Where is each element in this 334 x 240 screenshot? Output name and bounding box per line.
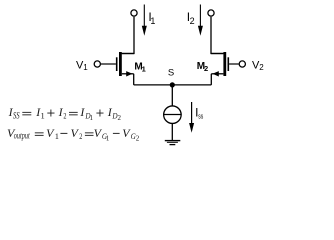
svg-text:1: 1: [41, 110, 45, 120]
svg-text:ss: ss: [198, 114, 203, 121]
svg-text:V: V: [71, 126, 80, 140]
svg-text:1: 1: [90, 114, 94, 122]
svg-text:2: 2: [204, 64, 208, 73]
svg-text:2: 2: [79, 131, 82, 141]
svg-text:S: S: [168, 67, 174, 78]
svg-text:1: 1: [55, 131, 59, 141]
svg-text:2: 2: [259, 63, 264, 72]
svg-text:2: 2: [63, 110, 66, 120]
svg-text:1: 1: [106, 135, 110, 143]
svg-text:2: 2: [136, 135, 140, 143]
svg-text:1: 1: [83, 63, 88, 72]
svg-text:output: output: [14, 131, 30, 141]
svg-text:1: 1: [150, 16, 155, 26]
svg-text:SS: SS: [13, 110, 20, 120]
svg-text:1: 1: [142, 64, 146, 73]
svg-text:2: 2: [118, 114, 122, 122]
svg-text:2: 2: [190, 16, 195, 26]
